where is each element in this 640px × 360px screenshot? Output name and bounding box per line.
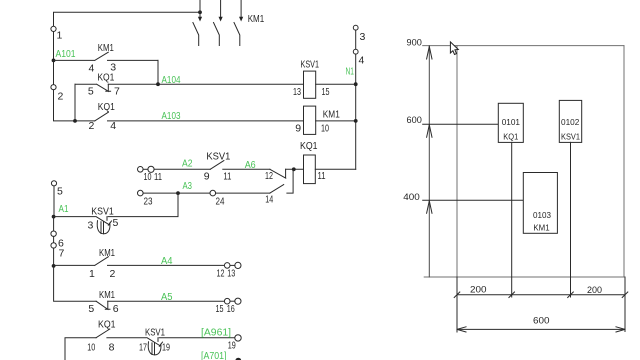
svg-text:16: 16 bbox=[227, 303, 235, 315]
svg-text:A1: A1 bbox=[59, 204, 69, 215]
wire coil KQ1 to N1 bbox=[315, 168, 355, 170]
node row3 bbox=[73, 119, 77, 123]
dim arrow left 600 bbox=[457, 327, 466, 332]
svg-text:A101: A101 bbox=[56, 49, 76, 60]
svg-text:200: 200 bbox=[470, 285, 487, 295]
node A3 bbox=[176, 191, 180, 195]
terminal 19 bbox=[235, 335, 241, 341]
terminal 10 bbox=[138, 167, 144, 173]
svg-text:17: 17 bbox=[139, 341, 147, 353]
contactor KM1 pole 1 bbox=[193, 0, 202, 46]
svg-text:KQ1: KQ1 bbox=[98, 101, 115, 113]
node N1 lower bbox=[354, 119, 358, 123]
svg-text:200: 200 bbox=[587, 285, 602, 295]
svg-text:400: 400 bbox=[403, 192, 420, 202]
svg-text:A104: A104 bbox=[162, 75, 181, 86]
svg-text:3: 3 bbox=[360, 31, 366, 43]
svg-text:A4: A4 bbox=[161, 256, 173, 267]
svg-text:0102: 0102 bbox=[561, 117, 579, 127]
dimension line 200s bbox=[457, 294, 625, 296]
node A104 bbox=[156, 82, 160, 86]
svg-text:600: 600 bbox=[533, 315, 550, 325]
svg-text:900: 900 bbox=[407, 37, 422, 47]
extension line from box 0102 bbox=[570, 142, 572, 297]
svg-text:12: 12 bbox=[265, 170, 273, 182]
contact KQ1 5-7 NC bbox=[75, 84, 111, 91]
svg-text:10: 10 bbox=[321, 123, 329, 135]
svg-text:10: 10 bbox=[144, 171, 152, 183]
wire bus N1 bbox=[355, 54, 357, 169]
svg-text:5: 5 bbox=[88, 86, 94, 98]
dim tick at 511.7 bbox=[509, 292, 515, 298]
wire bus to A5 bbox=[54, 266, 97, 301]
svg-text:KM1: KM1 bbox=[323, 109, 340, 121]
svg-text:8: 8 bbox=[109, 341, 115, 353]
wire bus below A1 bbox=[53, 217, 55, 231]
wire A1 row bbox=[54, 216, 95, 218]
wire A5 bbox=[108, 300, 224, 302]
node junction top bbox=[198, 10, 202, 14]
svg-text:KM1: KM1 bbox=[99, 247, 115, 259]
mouse cursor bbox=[450, 42, 458, 55]
svg-text:KM1: KM1 bbox=[533, 222, 549, 232]
svg-text:1: 1 bbox=[89, 268, 95, 280]
svg-text:KSV1: KSV1 bbox=[145, 326, 165, 338]
svg-text:KQ1: KQ1 bbox=[97, 71, 114, 83]
arrow 600 bbox=[427, 125, 432, 138]
wire A961 right bbox=[159, 337, 235, 339]
wire bus A1 bbox=[53, 186, 55, 217]
terminal 16 bbox=[235, 298, 241, 304]
svg-text:5: 5 bbox=[57, 185, 63, 197]
svg-text:A6: A6 bbox=[245, 160, 256, 171]
svg-text:10: 10 bbox=[87, 341, 95, 353]
wire terminals 15-16 bbox=[230, 300, 235, 302]
terminal 3 bbox=[353, 25, 358, 30]
terminal 5 bbox=[51, 181, 56, 186]
svg-text:4: 4 bbox=[110, 120, 116, 132]
svg-text:5: 5 bbox=[113, 217, 119, 229]
wire bus to row3 bbox=[54, 90, 95, 121]
contact KM1 5-6 NC bbox=[96, 301, 110, 309]
svg-text:23: 23 bbox=[144, 195, 153, 207]
svg-text:A2: A2 bbox=[182, 158, 193, 169]
svg-text:3: 3 bbox=[88, 219, 94, 231]
svg-text:15: 15 bbox=[322, 86, 330, 98]
svg-text:7: 7 bbox=[114, 86, 120, 98]
relay coil KQ1 bbox=[304, 155, 316, 184]
wire row1 drop bbox=[157, 60, 159, 84]
svg-text:[A701]: [A701] bbox=[201, 351, 227, 360]
svg-text:7: 7 bbox=[59, 247, 65, 259]
wire bus to A101 bbox=[53, 32, 55, 85]
svg-text:13: 13 bbox=[227, 267, 235, 279]
arrow 400 bbox=[427, 201, 432, 214]
svg-text:KQ1: KQ1 bbox=[98, 319, 116, 331]
svg-text:12: 12 bbox=[217, 267, 225, 279]
svg-text:1: 1 bbox=[57, 30, 63, 42]
node A4 feed bbox=[52, 264, 56, 268]
dimension line 600 bbox=[457, 328, 625, 330]
wire bus to A4 bbox=[53, 248, 55, 266]
extension line from box 0101 bbox=[511, 142, 513, 297]
svg-text:A3: A3 bbox=[183, 181, 193, 192]
svg-text:0101: 0101 bbox=[502, 117, 520, 127]
wire A3 left bbox=[143, 192, 210, 194]
svg-text:KSV1: KSV1 bbox=[206, 150, 230, 162]
svg-text:15: 15 bbox=[216, 303, 224, 315]
wire terminal 3-4 bbox=[355, 30, 357, 49]
node KQ1 common bbox=[292, 167, 296, 171]
panel enclosure top edge bbox=[423, 45, 624, 47]
svg-text:4: 4 bbox=[89, 63, 95, 75]
wire coil KSV1 to N1 bbox=[316, 83, 356, 85]
wire A2 bbox=[154, 168, 210, 170]
svg-text:KQ1: KQ1 bbox=[300, 140, 318, 152]
contact KQ1 14 NO bbox=[270, 169, 293, 193]
svg-text:19: 19 bbox=[162, 341, 170, 353]
dim tick at 625 bbox=[622, 292, 628, 298]
wire row2 bbox=[108, 83, 303, 85]
line 600 level bbox=[423, 123, 499, 125]
svg-text:2: 2 bbox=[110, 268, 116, 280]
dimension baseline vertical / panel left edge bbox=[428, 46, 430, 277]
wire A3 right bbox=[216, 192, 270, 194]
svg-text:5: 5 bbox=[88, 303, 94, 315]
svg-text:KSV1: KSV1 bbox=[301, 59, 320, 71]
wire top feed bbox=[54, 12, 201, 26]
extension line right edge bbox=[624, 277, 626, 332]
component box 0103 KM1 bbox=[523, 173, 557, 234]
contactor KM1 pole 3 bbox=[234, 0, 243, 46]
wire to coil KQ1 bbox=[286, 168, 304, 170]
node A701 bbox=[235, 358, 241, 360]
terminal 12 bbox=[224, 263, 230, 269]
terminal 15 bbox=[224, 298, 230, 304]
wire terminals 10-11 bbox=[143, 168, 148, 170]
pressure switch KSV1 17-19 bbox=[147, 338, 163, 347]
wire terminal 6-7 bbox=[53, 236, 55, 242]
node A1 bbox=[52, 215, 56, 219]
svg-text:KM1: KM1 bbox=[98, 42, 114, 54]
contact KSV1 9-11 bbox=[210, 161, 270, 170]
terminal 11 bbox=[148, 166, 154, 172]
wire A961 left drop bbox=[65, 338, 96, 360]
svg-text:6: 6 bbox=[113, 303, 119, 315]
svg-text:KM1: KM1 bbox=[248, 13, 265, 25]
component box 0102 KSV1 bbox=[559, 100, 581, 142]
svg-text:11: 11 bbox=[154, 171, 162, 183]
svg-text:2: 2 bbox=[89, 120, 95, 132]
dim arrow right 600 bbox=[616, 327, 625, 332]
svg-text:600: 600 bbox=[407, 115, 422, 125]
svg-text:KSV1: KSV1 bbox=[91, 206, 114, 218]
component box 0101 KQ1 bbox=[498, 103, 523, 142]
contact KQ1 10-8 bbox=[96, 329, 146, 338]
dim tick at 570.5 bbox=[568, 292, 574, 298]
terminal 4 bbox=[353, 49, 358, 54]
terminal 23 bbox=[138, 190, 144, 196]
wire coil KM1 to N1 bbox=[316, 120, 356, 122]
svg-text:9: 9 bbox=[295, 123, 301, 135]
wire riser rows2-3 bbox=[74, 84, 76, 121]
terminal 7 bbox=[51, 243, 56, 248]
terminal 24 bbox=[210, 190, 216, 196]
pressure switch KSV1 3-5 bbox=[96, 217, 112, 226]
svg-text:KM1: KM1 bbox=[99, 289, 115, 301]
svg-text:2: 2 bbox=[58, 91, 64, 103]
arrow 900 bbox=[427, 47, 432, 60]
wire terminals 12-13 bbox=[230, 264, 235, 266]
svg-text:KSV1: KSV1 bbox=[561, 131, 580, 141]
svg-text:A5: A5 bbox=[161, 292, 173, 303]
svg-text:4: 4 bbox=[359, 54, 365, 66]
svg-text:24: 24 bbox=[216, 195, 225, 207]
svg-text:KQ1: KQ1 bbox=[503, 132, 518, 142]
dim tick at 457 bbox=[454, 292, 460, 298]
relay coil KSV1 bbox=[304, 71, 316, 98]
node A101 bbox=[52, 59, 56, 63]
terminal 13 bbox=[235, 262, 241, 268]
contact KQ1 12 NC bbox=[270, 169, 286, 178]
terminal 2 bbox=[51, 85, 56, 90]
svg-text:0103: 0103 bbox=[533, 210, 551, 220]
panel rail divider bbox=[456, 46, 458, 277]
contact KQ1 2-4 bbox=[95, 112, 304, 121]
contactor KM1 pole 2 bbox=[214, 0, 223, 46]
svg-text:19: 19 bbox=[228, 339, 236, 351]
extension line from rail bbox=[456, 277, 458, 332]
svg-text:[A961]: [A961] bbox=[201, 328, 231, 339]
panel enclosure right edge bbox=[623, 46, 625, 277]
svg-text:11: 11 bbox=[318, 170, 326, 182]
svg-text:13: 13 bbox=[293, 86, 301, 98]
wire riser A1-A3 bbox=[108, 193, 178, 217]
svg-text:14: 14 bbox=[265, 193, 273, 205]
terminal 1 bbox=[51, 26, 56, 31]
svg-text:A103: A103 bbox=[162, 111, 181, 122]
panel enclosure bottom edge bbox=[424, 276, 624, 278]
svg-text:11: 11 bbox=[223, 171, 231, 183]
contact KM1 1-2 bbox=[54, 257, 225, 266]
relay coil KM1 bbox=[304, 106, 316, 134]
line 400 level bbox=[423, 199, 524, 201]
terminal 6 bbox=[51, 231, 56, 236]
svg-text:N1: N1 bbox=[346, 67, 355, 78]
svg-text:9: 9 bbox=[204, 171, 210, 183]
node N1 bbox=[354, 82, 358, 86]
contact KM1 4-3 bbox=[54, 52, 159, 60]
